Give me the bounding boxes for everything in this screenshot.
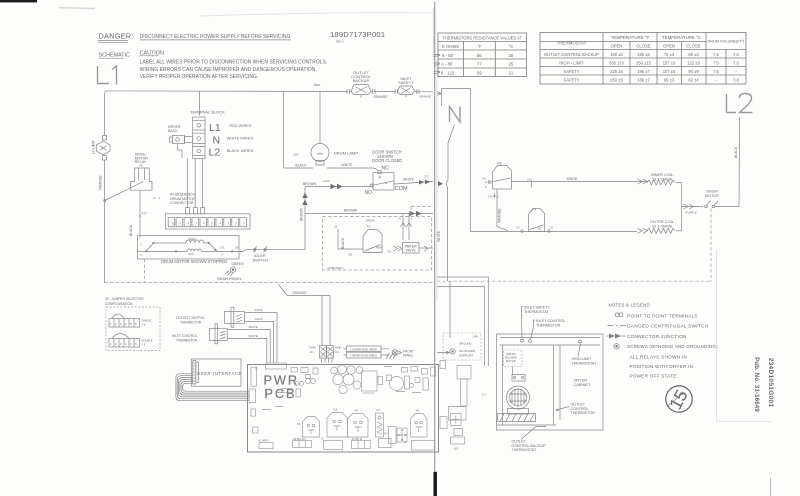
svg-text:THERMISTOR: THERMISTOR	[571, 411, 596, 415]
svg-text:°C: °C	[508, 44, 513, 49]
mc board support ground	[437, 333, 481, 360]
svg-text:POWER OFF STATE.: POWER OFF STATE.	[630, 374, 679, 379]
svg-text:J5 - JUMPER SELECTOR: J5 - JUMPER SELECTOR	[105, 297, 144, 301]
svg-text:PANEL: PANEL	[403, 354, 413, 358]
svg-text:121 ±9: 121 ±9	[687, 60, 700, 65]
svg-text:DRUM MOTOR SHOWN STOPPED: DRUM MOTOR SHOWN STOPPED	[161, 259, 227, 264]
svg-text:WIRING ERRORS CAN CAUSE IMPROP: WIRING ERRORS CAN CAUSE IMPROPER AND DAN…	[140, 67, 317, 73]
svg-text:PINK: PINK	[335, 345, 342, 349]
svg-text:LOWER ROD (RED): LOWER ROD (RED)	[350, 347, 377, 351]
svg-text:J-10: J-10	[527, 177, 533, 181]
svg-text:SAFETY: SAFETY	[398, 80, 414, 85]
svg-text:82 ±4: 82 ±4	[688, 77, 699, 82]
terminal block	[168, 110, 254, 159]
svg-text:GOLD: GOLD	[255, 317, 263, 321]
wire: bus dashed bottom (ganged centrifugal linkage)	[105, 281, 712, 282]
big letter L2 (line L2 net)	[727, 94, 737, 113]
svg-text:THERMOSTAT: THERMOSTAT	[524, 310, 550, 314]
svg-text:J10 BLU J10: J10 BLU J10	[293, 439, 307, 441]
drain relay K3	[363, 219, 383, 253]
svg-text:HIGH - LIMIT: HIGH - LIMIT	[559, 60, 584, 65]
water valve	[403, 243, 420, 254]
bonding cross	[397, 428, 407, 442]
svg-text:J-8: J-8	[482, 177, 486, 181]
svg-text:189D7173P001: 189D7173P001	[330, 30, 385, 39]
svg-text:BROWN: BROWN	[303, 182, 317, 186]
svg-text:WHITE WIRES: WHITE WIRES	[227, 136, 254, 141]
svg-text:ALL RELAYS SHOWN IN: ALL RELAYS SHOWN IN	[630, 355, 688, 360]
svg-text:J17: J17	[142, 212, 148, 216]
page seam lines	[434, 2, 436, 472]
svg-text:Pub. No. 31-16649: Pub. No. 31-16649	[753, 357, 759, 412]
wire: ganged link motor box to dashed rail	[144, 259, 146, 283]
notes and legend	[607, 303, 719, 379]
svg-text:J14: J14	[335, 351, 340, 354]
svg-text:(DRUM): (DRUM)	[506, 352, 516, 356]
svg-text:J20: J20	[387, 251, 392, 254]
svg-text:PINK: PINK	[310, 345, 317, 349]
svg-text:K7: K7	[377, 408, 381, 412]
svg-text:OPEN: OPEN	[663, 44, 675, 49]
svg-text:DOUBLE: DOUBLE	[142, 339, 153, 343]
svg-text:RED WIRES: RED WIRES	[229, 123, 251, 128]
wires: thermistors to pwr pcb	[227, 313, 277, 363]
svg-text:GREEN: GREEN	[232, 262, 245, 266]
thermostat INLET SAFETY (hexagon on bus)	[395, 76, 419, 97]
door switch	[365, 150, 408, 197]
svg-text:WHITE: WHITE	[403, 178, 415, 182]
wire: idler up to door switch level	[304, 187, 306, 250]
svg-text:225 ±5: 225 ±5	[610, 69, 623, 74]
svg-text:L2: L2	[209, 146, 221, 158]
relay K2	[384, 427, 396, 444]
svg-text:7.0: 7.0	[733, 52, 739, 57]
wires: terminal block down to connector	[178, 144, 203, 208]
ground screw GREEN / rear panel	[217, 262, 244, 281]
wire: L2 down to switch	[738, 117, 741, 207]
svg-text:L1: L1	[209, 122, 221, 134]
wire: L1 main bus top (left page)	[105, 91, 434, 283]
svg-text:160 ±5: 160 ±5	[610, 52, 623, 57]
svg-text:WHITE: WHITE	[567, 177, 579, 181]
wires: seam to mc board	[437, 277, 488, 366]
svg-text:°F: °F	[477, 44, 482, 49]
svg-text:7.0: 7.0	[142, 323, 146, 327]
svg-text:REV 1: REV 1	[336, 39, 344, 43]
svg-text:CN1: CN1	[220, 247, 225, 250]
svg-text:SUPPORT: SUPPORT	[459, 353, 474, 357]
svg-text:BLACK WIRES: BLACK WIRES	[227, 148, 254, 153]
svg-text:J18: J18	[454, 447, 459, 451]
page number circle 15	[665, 386, 692, 413]
drum motor connector strip	[166, 208, 251, 229]
drum motor centrifugal switch	[705, 190, 739, 208]
svg-text:ORANGE: ORANGE	[99, 175, 103, 190]
svg-text:7.5: 7.5	[142, 343, 146, 347]
drum motor (shown stopped)	[138, 236, 240, 265]
svg-text:AUX: AUX	[188, 252, 194, 256]
heater inner coil	[637, 172, 682, 185]
svg-text:8 - 122: 8 - 122	[441, 70, 455, 75]
svg-text:19.2 OHMS: 19.2 OHMS	[652, 176, 673, 181]
relay K8	[482, 162, 512, 199]
svg-text:NO: NO	[365, 190, 373, 196]
svg-text:7.5: 7.5	[713, 69, 719, 74]
svg-text:180 ±7: 180 ±7	[637, 77, 650, 82]
svg-text:AC INPUT: AC INPUT	[258, 440, 269, 443]
svg-text:K OHMS: K OHMS	[442, 44, 459, 49]
relay K1	[411, 409, 428, 438]
svg-text:J-5: J-5	[550, 226, 554, 230]
svg-text:K9: K9	[334, 408, 338, 412]
svg-text:250 ±5: 250 ±5	[610, 77, 623, 82]
heater outer coil	[638, 219, 682, 233]
svg-text:SAFETY: SAFETY	[564, 69, 580, 74]
svg-text:10: 10	[172, 222, 176, 226]
page seam black bar	[434, 472, 437, 496]
PCB top right connectors	[384, 367, 436, 393]
svg-text:THERMISTOR: THERMISTOR	[176, 338, 198, 342]
PCB left edge components	[249, 367, 258, 433]
svg-text:THERMISTOR: THERMISTOR	[180, 320, 202, 324]
svg-text:WHITE: WHITE	[342, 163, 354, 167]
PCB capacitor cluster	[331, 365, 363, 394]
svg-text:WHITE: WHITE	[249, 325, 258, 329]
wire: bus to terminal block	[199, 91, 201, 115]
wire orange to front connectors	[279, 285, 331, 346]
svg-text:ORANGE: ORANGE	[292, 291, 307, 295]
svg-text:NC: NC	[538, 227, 542, 231]
svg-text:ORANGE: ORANGE	[373, 95, 388, 99]
svg-text:19.2 OHMS: 19.2 OHMS	[652, 223, 673, 228]
PCB large capacitor	[387, 375, 429, 391]
svg-text:A - 80: A - 80	[441, 62, 453, 67]
thermostat temperature table	[540, 33, 746, 85]
drive motor relay K	[104, 153, 152, 202]
svg-text:WHITE: WHITE	[437, 230, 441, 242]
thermostat HI-LIMIT (hexagon)	[92, 136, 111, 161]
svg-text:USER INTERFACE: USER INTERFACE	[197, 371, 242, 376]
svg-text:BLACK: BLACK	[129, 224, 133, 236]
svg-text:J-2: J-2	[153, 196, 157, 200]
svg-text:BROWN: BROWN	[344, 209, 358, 213]
svg-text:69: 69	[477, 70, 482, 75]
svg-text:J9 TAN J9: J9 TAN J9	[352, 438, 363, 441]
svg-text:VALVE: VALVE	[406, 249, 417, 253]
wire: K8 down orange	[497, 189, 508, 231]
svg-text:K5: K5	[297, 422, 301, 426]
connectors J14 pink	[310, 345, 342, 363]
svg-text:CONFIGURATION: CONFIGURATION	[105, 302, 133, 306]
svg-text:90 ±9: 90 ±9	[688, 69, 699, 74]
svg-text:NC: NC	[382, 166, 390, 172]
svg-text:7.5: 7.5	[713, 60, 719, 65]
mc board components	[440, 361, 487, 451]
right page faint border	[717, 250, 772, 422]
svg-text:POSITION WITH DRYER IN: POSITION WITH DRYER IN	[630, 364, 694, 369]
wire: water valve to seam junction	[419, 247, 433, 249]
J5 jumper selector box	[106, 307, 160, 351]
svg-text:CLOSE: CLOSE	[686, 44, 700, 49]
svg-text:REAR PANEL: REAR PANEL	[217, 276, 243, 281]
svg-text:THERMOSTAT: THERMOSTAT	[557, 41, 587, 46]
wire: right page border down to heater feed	[471, 89, 638, 232]
svg-text:J-PH: J-PH	[473, 335, 479, 339]
svg-text:77: 77	[477, 62, 482, 67]
svg-text:K6: K6	[355, 409, 359, 413]
wire: centrifugal ganged dashed link	[710, 209, 712, 282]
PWR PCB board outline	[248, 365, 439, 453]
svg-text:8 - 92: 8 - 92	[442, 53, 454, 58]
svg-text:K1: K1	[416, 409, 420, 413]
svg-text:↓J23: ↓J23	[292, 153, 299, 157]
svg-text:POINT TO POINT TERMINALS: POINT TO POINT TERMINALS	[627, 313, 698, 318]
svg-text:THERMOSTAT: THERMOSTAT	[512, 448, 538, 452]
svg-text:WATER: WATER	[405, 244, 417, 248]
wire: N bus down	[446, 125, 454, 339]
svg-text:DISCONNECT ELECTRIC POWER SUPP: DISCONNECT ELECTRIC POWER SUPPLY BEFORE …	[140, 34, 291, 40]
ribbon cable user interface to pwr pcb	[176, 374, 249, 401]
svg-text:K2: K2	[384, 432, 388, 436]
svg-text:234D1051G001: 234D1051G001	[767, 358, 774, 408]
relay K7	[376, 408, 384, 437]
svg-text:WHITE: WHITE	[249, 334, 258, 338]
svg-text:195 ±7: 195 ±7	[637, 69, 650, 74]
svg-text:DRAIN: DRAIN	[366, 219, 375, 223]
svg-text:VERIFY PROPER OPERATION AFTER: VERIFY PROPER OPERATION AFTER SERVICING.	[140, 74, 259, 80]
wire: bus entering right page	[437, 89, 471, 107]
svg-text:68 ±3: 68 ±3	[688, 52, 699, 57]
wires: water valve box up to brown wire	[403, 214, 409, 241]
svg-text:CAUTION: CAUTION	[140, 50, 164, 56]
svg-text:+12V: +12V	[323, 179, 330, 183]
svg-text:CLOSE: CLOSE	[636, 44, 650, 49]
svg-text:N: N	[213, 135, 221, 147]
svg-text:TEMPERATURE °C: TEMPERATURE °C	[662, 35, 701, 40]
svg-text:NOTES & LEGEND: NOTES & LEGEND	[609, 303, 650, 308]
svg-text:86: 86	[477, 53, 482, 58]
svg-text:K3: K3	[367, 225, 371, 229]
scan top faint marks	[59, 7, 95, 10]
svg-text:335 ±10: 335 ±10	[609, 60, 624, 65]
svg-text:99 ±3: 99 ±3	[664, 77, 675, 82]
relay K5	[297, 417, 320, 438]
user interface board	[191, 359, 242, 386]
svg-text:BLACK: BLACK	[296, 164, 308, 168]
big letter N (neutral net)	[450, 107, 461, 123]
PCB main IC	[362, 371, 383, 393]
relay K9	[327, 408, 348, 438]
PCB bottom edge connectors	[258, 438, 435, 450]
big letter L1 (line L1 net)	[98, 66, 110, 84]
svg-text:GANGED CENTRIFUGAL SWITCH: GANGED CENTRIFUGAL SWITCH	[627, 324, 708, 329]
svg-text:ORANGE: ORANGE	[498, 208, 502, 223]
ground screw front panel	[386, 350, 414, 359]
svg-text:107 ±6: 107 ±6	[663, 69, 676, 74]
svg-text:J-9: J-9	[516, 226, 520, 230]
svg-text:TEMPERATURE °F: TEMPERATURE °F	[611, 35, 650, 40]
scan top edge black bar	[0, 0, 37, 2]
svg-text:BLACK: BLACK	[341, 237, 345, 249]
svg-text:J3: J3	[334, 225, 337, 229]
svg-text:K8: K8	[498, 162, 502, 166]
svg-text:CONNECTOR JUNCTION: CONNECTOR JUNCTION	[627, 334, 687, 339]
svg-text:SWITCH: SWITCH	[253, 258, 269, 263]
svg-text:THERMOSTAT: THERMOSTAT	[572, 361, 598, 365]
svg-text:PURPLE: PURPLE	[686, 211, 697, 215]
svg-text:MOTOR: MOTOR	[705, 194, 719, 198]
wire: K8 to inner coil	[512, 181, 638, 183]
svg-text:250 ±15: 250 ±15	[636, 60, 651, 65]
svg-text:7.8: 7.8	[733, 77, 739, 82]
relay K6	[348, 409, 369, 438]
wire: relay to border and down to J17	[139, 190, 141, 237]
water valve circuit dashed enclosure	[323, 217, 432, 271]
svg-text:UPPER ROD (RED): UPPER ROD (RED)	[351, 354, 377, 358]
svg-text:K4: K4	[533, 208, 537, 212]
svg-text:BLACK: BLACK	[734, 146, 738, 158]
relay K4	[516, 208, 554, 233]
cabinet base hatch	[498, 414, 536, 422]
drum machine motor label	[504, 350, 523, 375]
drum lamp	[311, 144, 358, 166]
thermostat OUTLET CONTROL BACKUP (hexagon on bus)	[347, 70, 375, 98]
svg-text:J14: J14	[310, 351, 315, 354]
dryness sensor rods	[344, 346, 390, 358]
svg-text:157 ±6: 157 ±6	[663, 60, 676, 65]
svg-text:RED: RED	[314, 83, 321, 87]
svg-text:MACHINE: MACHINE	[505, 356, 517, 360]
svg-text:CABINET: CABINET	[574, 382, 591, 387]
svg-text:DOOR CLOSED: DOOR CLOSED	[372, 158, 402, 163]
svg-text:HEAT: HEAT	[376, 247, 383, 250]
svg-text:7.0: 7.0	[733, 60, 739, 65]
svg-text:J-RIB (REF): J-RIB (REF)	[327, 266, 343, 270]
idler switch	[239, 246, 305, 263]
svg-text:MOTOR: MOTOR	[506, 359, 516, 363]
PCB small parts row	[262, 368, 318, 410]
svg-text:7.5: 7.5	[713, 52, 719, 57]
PCB top edge connector	[266, 363, 287, 369]
svg-text:Y5: Y5	[139, 164, 143, 168]
svg-text:BROWN: BROWN	[300, 207, 304, 221]
svg-text:21: 21	[509, 70, 514, 75]
svg-text:LABEL ALL WIRES PRIOR TO DISCO: LABEL ALL WIRES PRIOR TO DISCONNECTION W…	[140, 59, 328, 65]
wire: brown to door switch NO	[305, 186, 371, 188]
svg-text:SAFETY: SAFETY	[564, 77, 580, 82]
svg-text:SCHEMATIC: SCHEMATIC	[99, 53, 130, 59]
svg-text:ORANGE: ORANGE	[419, 95, 431, 99]
svg-text:25: 25	[509, 62, 514, 67]
svg-text:DRUM LAMP: DRUM LAMP	[334, 151, 358, 156]
svg-text:BACKUP: BACKUP	[353, 78, 370, 83]
svg-text:TERMINAL BLOCK: TERMINAL BLOCK	[190, 110, 225, 115]
svg-text:SCREWS (BONDING AND GROUNDING): SCREWS (BONDING AND GROUNDING)	[627, 344, 718, 349]
drum machine motor drawing	[507, 375, 530, 415]
wire: bus down to drum lamp	[319, 92, 321, 144]
svg-text:J17: J17	[482, 393, 487, 397]
svg-text:CONNECTOR: CONNECTOR	[170, 201, 194, 205]
wire: brown junction to right page (node)	[305, 213, 433, 215]
svg-text:GROUND: GROUND	[459, 342, 471, 346]
thermistor resistance table	[434, 33, 527, 77]
svg-text:J16: J16	[235, 247, 240, 250]
svg-text:J22: J22	[424, 175, 429, 179]
scan right edge mark	[770, 478, 772, 496]
svg-text:76 ±3: 76 ±3	[664, 52, 675, 57]
svg-text:J21: J21	[348, 253, 353, 257]
svg-text:30: 30	[509, 53, 514, 58]
wire: lamp to door switch NC	[327, 168, 378, 171]
svg-text:BACK: BACK	[168, 129, 178, 133]
svg-text:155 ±5: 155 ±5	[637, 52, 650, 57]
svg-text:OPEN: OPEN	[611, 44, 623, 49]
wire: coils common to centrifugal switch	[682, 183, 704, 231]
outlet control thermistor	[176, 307, 244, 327]
wire: COM white to right page	[394, 182, 433, 185]
svg-text:GOLD: GOLD	[255, 308, 263, 312]
wire: black to lamp	[284, 92, 314, 169]
svg-text:DANGER:: DANGER:	[99, 31, 134, 40]
svg-text:J-20: J-20	[488, 195, 494, 199]
dryer cabinet figure	[497, 334, 604, 430]
inlet control thermistor	[172, 324, 227, 344]
svg-text:THERMISTORS RESISTANCE VALUES: THERMISTORS RESISTANCE VALUES AT	[442, 35, 522, 40]
svg-text:THERMISTOR: THERMISTOR	[536, 323, 561, 327]
svg-text:HI-LIMIT: HI-LIMIT	[92, 139, 96, 154]
svg-text:SINGLE: SINGLE	[142, 319, 152, 323]
svg-text:DRUM VOLUME(FT³): DRUM VOLUME(FT³)	[708, 40, 746, 44]
svg-text:COM: COM	[395, 186, 408, 192]
svg-text:OUTLET CONTROL BACKUP: OUTLET CONTROL BACKUP	[544, 52, 599, 57]
